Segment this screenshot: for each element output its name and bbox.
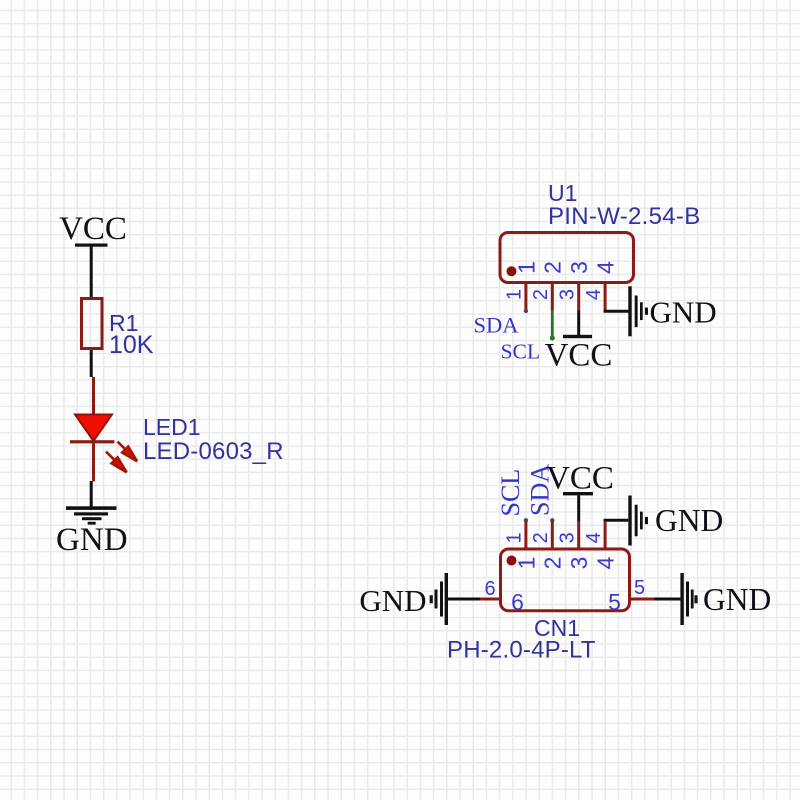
svg-text:GND: GND <box>655 503 723 538</box>
svg-text:10K: 10K <box>109 331 154 359</box>
wire VCC to R1 <box>90 247 93 298</box>
pin 3 U1 <box>577 284 580 311</box>
svg-text:VCC: VCC <box>546 461 614 497</box>
svg-text:2: 2 <box>540 261 566 274</box>
svg-text:5: 5 <box>608 589 621 615</box>
svg-text:PH-2.0-4P-LT: PH-2.0-4P-LT <box>447 637 596 664</box>
net label VCC (left branch) <box>59 211 127 247</box>
pin 1 CN1 <box>524 521 527 548</box>
svg-text:4: 4 <box>583 532 605 543</box>
pin 1 end dot <box>524 309 528 313</box>
wire pin6 to ground <box>448 598 480 601</box>
svg-text:PIN-W-2.54-B: PIN-W-2.54-B <box>548 203 701 230</box>
wire pin4 CN1 to ground <box>605 520 628 522</box>
svg-text:3: 3 <box>557 532 579 543</box>
svg-text:VCC: VCC <box>59 211 127 247</box>
pin 1 end dot CN1 <box>524 518 528 522</box>
ground (left branch) <box>56 506 128 558</box>
ground (U1 pin4) <box>628 286 716 336</box>
svg-text:4: 4 <box>593 556 619 569</box>
svg-text:4: 4 <box>593 261 619 274</box>
pin 2 CN1 <box>551 521 554 548</box>
wire pin3 to VCC <box>577 311 580 337</box>
wire VCC to pin3 CN1 <box>577 495 580 521</box>
pin 1 U1 <box>524 284 527 311</box>
pin 1 marker dot U1 <box>507 266 517 276</box>
svg-text:5: 5 <box>634 577 645 599</box>
svg-text:1: 1 <box>513 261 539 274</box>
connector CN1 body <box>501 549 630 611</box>
svg-text:LED-0603_R: LED-0603_R <box>143 438 284 465</box>
pin 5 CN1 <box>630 598 655 601</box>
LED LED1 <box>70 377 137 481</box>
wire end dot SCL <box>550 336 555 341</box>
wire R1 to LED1 <box>90 350 93 377</box>
svg-text:GND: GND <box>56 522 128 558</box>
resistor R1 <box>82 299 103 349</box>
wire LED1 to ground <box>90 481 93 507</box>
svg-text:4: 4 <box>583 289 605 300</box>
wire SCL (green) <box>551 311 554 339</box>
svg-text:SDA: SDA <box>473 313 519 338</box>
pin 2 U1 <box>551 284 554 311</box>
svg-text:3: 3 <box>557 289 579 300</box>
svg-text:GND: GND <box>359 583 426 618</box>
ground (CN1 pin4) <box>628 496 723 546</box>
svg-text:VCC: VCC <box>545 338 613 374</box>
ground (CN1 pin6) <box>359 573 448 625</box>
power flag VCC (U1) <box>545 335 613 374</box>
svg-text:6: 6 <box>484 578 495 600</box>
pin 3 CN1 <box>577 521 580 548</box>
connector U1 body <box>500 233 634 283</box>
wire pin5 to ground <box>654 598 680 601</box>
svg-text:GND: GND <box>703 582 771 617</box>
svg-text:6: 6 <box>511 589 524 615</box>
svg-text:3: 3 <box>566 261 592 274</box>
svg-text:1: 1 <box>504 532 526 543</box>
pin 4 U1 <box>604 284 607 311</box>
pin 4 CN1 <box>604 521 607 548</box>
svg-text:2: 2 <box>530 289 552 300</box>
svg-text:1: 1 <box>513 557 539 570</box>
svg-text:SCL: SCL <box>501 340 540 364</box>
svg-text:LED1: LED1 <box>143 414 201 440</box>
pin 6 CN1 <box>477 598 500 601</box>
wire pin4 to ground <box>605 310 628 312</box>
pin 1 marker dot CN1 <box>507 556 517 566</box>
svg-text:2: 2 <box>530 532 552 543</box>
svg-text:SCL: SCL <box>496 469 525 517</box>
svg-text:3: 3 <box>566 557 592 570</box>
ground (CN1 pin5) <box>680 573 771 625</box>
pin 2 end dot CN1 <box>550 518 554 522</box>
svg-text:GND: GND <box>650 295 717 330</box>
svg-text:2: 2 <box>540 557 566 570</box>
power flag VCC (CN1) <box>546 461 614 497</box>
svg-text:1: 1 <box>504 289 526 300</box>
